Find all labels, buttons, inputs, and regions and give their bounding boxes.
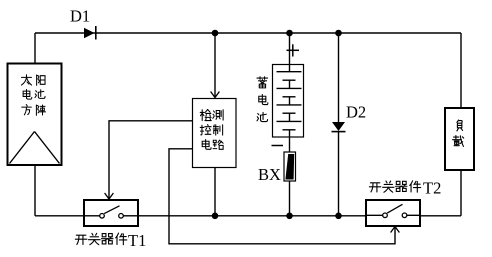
svg-text:T1: T1 xyxy=(128,231,146,250)
svg-text:BX: BX xyxy=(258,165,281,184)
svg-text:T2: T2 xyxy=(423,179,441,198)
svg-text:D1: D1 xyxy=(70,6,90,25)
svg-text:D2: D2 xyxy=(346,103,366,122)
